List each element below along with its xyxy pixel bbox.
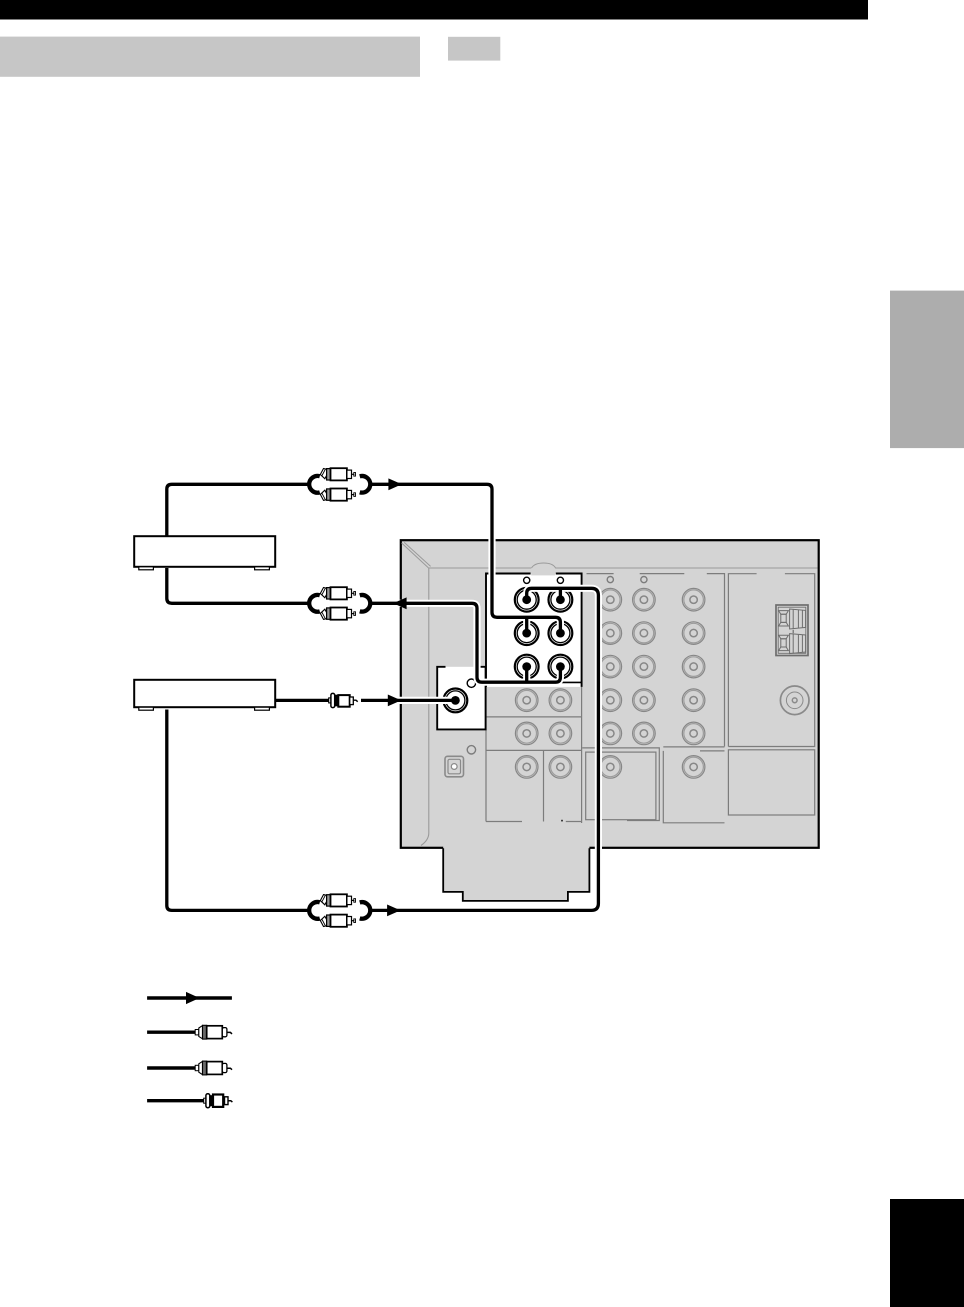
gray RCA jack A5: [515, 722, 538, 745]
receiver rear panel body: [401, 540, 819, 848]
section box: left audio/video column group: [486, 574, 582, 823]
speaker terminal block: [776, 605, 808, 656]
arrow into receiver (cable 1): [388, 478, 401, 490]
screw hole in video box: [467, 679, 475, 687]
black RCA jack B2 (audio in R): [549, 621, 573, 645]
cable 3 right segment into video jack: [361, 697, 455, 704]
gray RCA jack D5: [633, 722, 656, 745]
coaxial antenna jack: [780, 686, 809, 715]
audio cable pair symbol (bottom): [309, 893, 370, 928]
cable 3 left segment (recorder video out): [275, 697, 330, 704]
arrow into receiver (cable 3): [388, 695, 401, 707]
gray RCA jack D2: [633, 622, 656, 645]
screw hole above A1: [524, 577, 530, 583]
right side gray section tab: [890, 291, 964, 449]
small gray page-number box: [448, 37, 500, 61]
jack center pins: [451, 595, 565, 705]
gray RCA jack C2: [599, 622, 622, 645]
top black header bar: [0, 0, 868, 20]
cable 1 left segment (CD player to cable pair): [167, 484, 310, 537]
cable 4 right segment up to component-in jacks: [372, 588, 599, 910]
gray RCA jack D1: [633, 588, 656, 611]
gray RCA jack C4: [599, 689, 622, 712]
white highlight box: component video/audio inputs: [486, 574, 582, 687]
legend: audio cable plug (L): [147, 1025, 232, 1039]
cable 4 left segment from recorder: [167, 710, 310, 911]
component box 1 (CD recorder): [134, 536, 275, 570]
video pin plug symbol: [329, 693, 358, 707]
legend: signal direction arrow: [147, 992, 232, 1004]
tiny registration dot: [561, 820, 563, 822]
gray RCA jack E1: [682, 588, 705, 611]
screw hole above D1: [641, 577, 647, 583]
bottom-right black corner tab: [890, 1199, 964, 1307]
gray RCA jack D3: [633, 655, 656, 678]
screw hole above C1: [607, 577, 613, 583]
sub-box below column E: [663, 747, 724, 823]
gray RCA jack D4: [633, 689, 656, 712]
sub-box below middle field (label plate): [582, 748, 659, 821]
gray RCA jack C6: [599, 756, 622, 779]
gray RCA jack E2: [682, 622, 705, 645]
gray RCA jack B4: [549, 689, 572, 712]
gray RCA jack C3: [599, 655, 622, 678]
panel inner bevel edges: [402, 542, 818, 845]
white highlight box: video input: [437, 667, 485, 730]
screw hole above optical jack: [467, 746, 475, 754]
power cord protrusion below panel: [443, 846, 589, 901]
screw hole above B1: [557, 577, 563, 583]
arrow into receiver (cable 4): [387, 905, 400, 917]
black RCA jack B3 (audio out R): [549, 655, 573, 679]
gray RCA jack E6: [682, 756, 705, 779]
gray RCA jack E3: [682, 655, 705, 678]
black RCA jack A1 (component in L): [515, 588, 539, 612]
gray RCA jack B6: [549, 756, 572, 779]
panel top notch bump: [531, 563, 555, 575]
audio cable pair symbol (middle): [309, 586, 370, 621]
component box 2 (video recorder): [134, 680, 275, 710]
legend: video cable plug: [147, 1094, 232, 1108]
cable 1 right segment into audio-in jacks: [372, 484, 561, 633]
gray RCA jack A6: [515, 756, 538, 779]
gray RCA jack B5: [549, 722, 572, 745]
black RCA jack video input: [444, 689, 468, 713]
section box: middle jack field: [587, 574, 725, 747]
arrow out of receiver (cable 2): [393, 597, 406, 609]
legend: audio cable plug (R): [147, 1061, 232, 1075]
black RCA jack B1 (component in R): [549, 588, 573, 612]
audio cable pair symbol (top): [309, 467, 370, 502]
gray RCA jack A4: [515, 689, 538, 712]
gray RCA jack E4: [682, 689, 705, 712]
gray page-title bar: [0, 37, 420, 77]
gray RCA jack C5: [599, 722, 622, 745]
gray RCA jack C1: [599, 588, 622, 611]
black RCA jack A2 (audio in L): [515, 621, 539, 645]
right large section box (speakers): [728, 574, 814, 815]
cable 2 right segment from audio-out jacks: [372, 603, 561, 682]
black RCA jack A3 (audio out L): [515, 655, 539, 679]
gray RCA jack E5: [682, 722, 705, 745]
optical digital jack: [445, 756, 464, 777]
cable 2 left segment to CD recorder: [167, 568, 310, 603]
